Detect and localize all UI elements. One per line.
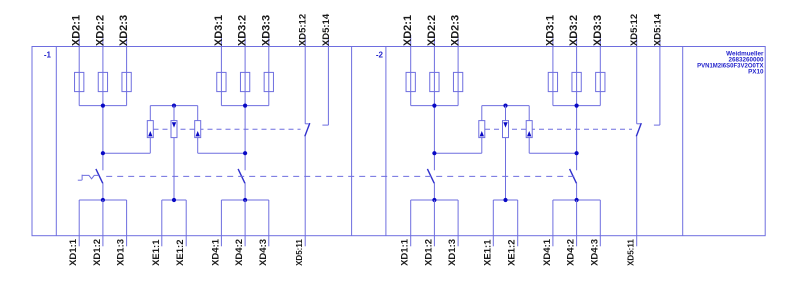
svg-text:XD2:1: XD2:1 — [402, 15, 414, 46]
svg-text:XD3:3: XD3:3 — [592, 15, 604, 46]
svg-text:XD4:1: XD4:1 — [210, 238, 221, 266]
svg-text:XD1:3: XD1:3 — [116, 239, 127, 266]
svg-text:XD4:1: XD4:1 — [542, 238, 553, 266]
svg-text:XD2:2: XD2:2 — [94, 15, 106, 46]
svg-text:PX10: PX10 — [748, 68, 764, 75]
svg-text:-1: -1 — [44, 51, 52, 60]
svg-text:XD4:3: XD4:3 — [589, 239, 600, 266]
svg-text:XD5:11: XD5:11 — [627, 239, 636, 266]
svg-text:-2: -2 — [376, 51, 384, 60]
svg-text:XD3:3: XD3:3 — [260, 15, 272, 46]
svg-text:XD3:2: XD3:2 — [568, 15, 580, 46]
svg-text:XD3:1: XD3:1 — [544, 15, 556, 46]
svg-text:XD2:1: XD2:1 — [71, 15, 83, 46]
svg-text:XD2:3: XD2:3 — [118, 15, 130, 46]
svg-text:XE1:2: XE1:2 — [507, 239, 518, 265]
svg-text:XD4:2: XD4:2 — [566, 239, 577, 266]
svg-text:XE1:1: XE1:1 — [482, 239, 493, 266]
svg-text:XD3:1: XD3:1 — [213, 15, 225, 46]
svg-text:XD1:1: XD1:1 — [68, 238, 79, 266]
svg-text:XD1:3: XD1:3 — [447, 239, 458, 266]
svg-text:XD4:2: XD4:2 — [234, 239, 245, 266]
svg-text:XD5:14: XD5:14 — [652, 13, 663, 46]
svg-text:XD5:12: XD5:12 — [629, 14, 640, 46]
svg-text:XD3:2: XD3:2 — [237, 15, 249, 46]
svg-text:XE1:1: XE1:1 — [151, 239, 162, 266]
svg-text:XD2:3: XD2:3 — [450, 15, 462, 46]
svg-text:XD1:1: XD1:1 — [400, 238, 411, 266]
svg-text:XD1:2: XD1:2 — [423, 239, 434, 266]
svg-text:XD5:12: XD5:12 — [298, 14, 309, 46]
svg-text:XD5:11: XD5:11 — [295, 239, 304, 266]
svg-text:XD1:2: XD1:2 — [92, 239, 103, 266]
svg-text:XD4:3: XD4:3 — [258, 239, 269, 266]
svg-text:XD2:2: XD2:2 — [426, 15, 438, 46]
svg-text:XD5:14: XD5:14 — [321, 13, 332, 46]
svg-text:XE1:2: XE1:2 — [175, 239, 186, 265]
